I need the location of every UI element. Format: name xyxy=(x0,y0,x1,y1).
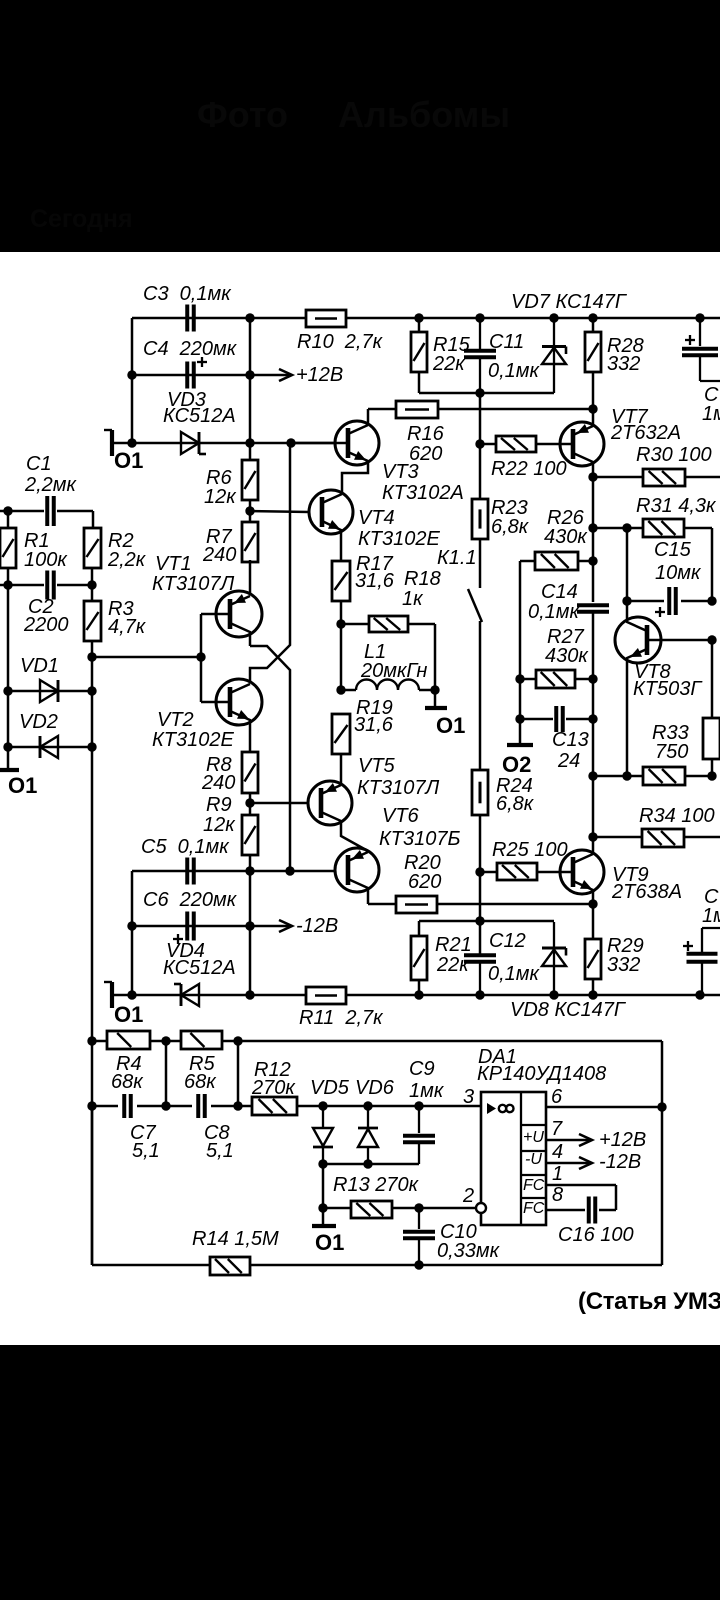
resistor R6 xyxy=(204,460,258,508)
node VT8 base xyxy=(707,635,716,644)
wire vert links xyxy=(166,1041,238,1106)
svg-text:22к: 22к xyxy=(432,353,466,375)
svg-text:О2: О2 xyxy=(502,752,531,777)
wire R13 row xyxy=(323,1207,476,1210)
label K1.1 xyxy=(437,547,477,569)
terminal O1 left xyxy=(0,770,37,798)
resistor R1 xyxy=(0,528,68,571)
terminal O1 top xyxy=(104,430,143,473)
svg-text:240: 240 xyxy=(201,772,235,794)
node c10 bot xyxy=(414,1260,423,1269)
svg-text:С14: С14 xyxy=(541,581,578,603)
node R30 left xyxy=(588,472,597,481)
node R13-l xyxy=(318,1203,327,1212)
svg-text:4,7к: 4,7к xyxy=(108,616,147,638)
resistor R12 xyxy=(251,1059,297,1115)
svg-text:К1.1: К1.1 xyxy=(437,547,477,569)
node base feed xyxy=(196,652,205,661)
wire ps bottom row xyxy=(92,1264,662,1267)
wire R18 row xyxy=(341,624,435,690)
resistor R33 xyxy=(643,722,689,785)
transistor VT5 xyxy=(308,755,439,851)
capacitor C5 xyxy=(141,836,230,885)
svg-text:VT2: VT2 xyxy=(157,709,194,731)
svg-text:КТ503Г: КТ503Г xyxy=(633,678,703,700)
svg-text:R16: R16 xyxy=(407,423,445,445)
node R31 left xyxy=(588,523,597,532)
pin2 circle xyxy=(476,1203,486,1213)
wire pin8 xyxy=(546,1209,616,1212)
zener VD8 xyxy=(542,922,566,995)
wire vd5-R13 col xyxy=(322,1164,325,1226)
node VT6b-1 xyxy=(245,866,254,875)
pin 8 xyxy=(552,1184,563,1206)
node R27-l xyxy=(515,674,524,683)
node R26 right xyxy=(588,556,597,565)
wire R8-R9 xyxy=(249,793,252,815)
resistor R20 xyxy=(396,852,441,913)
svg-text:2Т632А: 2Т632А xyxy=(610,422,681,444)
wire R20 row xyxy=(368,903,593,906)
svg-text:6,8к: 6,8к xyxy=(491,516,530,538)
resistor R18 xyxy=(369,568,441,632)
svg-text:31,6: 31,6 xyxy=(354,714,394,736)
label R13 xyxy=(333,1174,420,1196)
switch K1.1 xyxy=(468,539,482,770)
node c78-3 xyxy=(233,1101,242,1110)
wire R6-R7 xyxy=(249,500,252,522)
svg-text:22к: 22к xyxy=(436,954,470,976)
svg-text:VT4: VT4 xyxy=(358,507,395,529)
node input1 xyxy=(3,506,12,515)
resistor R13 xyxy=(351,1201,392,1218)
node R29 rail xyxy=(588,990,597,999)
inductor L1 xyxy=(341,680,435,691)
wire C15 row xyxy=(627,600,712,603)
svg-text:-12В: -12В xyxy=(296,915,338,937)
wire VT5 base row xyxy=(250,802,308,805)
svg-text:2,2к: 2,2к xyxy=(107,549,147,571)
node vd5 top xyxy=(318,1101,327,1110)
capacitor C14 xyxy=(528,581,609,623)
svg-text:332: 332 xyxy=(607,954,640,976)
svg-text:О1: О1 xyxy=(436,713,465,738)
diode VD6 xyxy=(358,1106,378,1164)
node VD7 rail xyxy=(549,313,558,322)
svg-text:68к: 68к xyxy=(184,1071,217,1093)
wire R34 row xyxy=(593,836,720,839)
resistor R31 xyxy=(636,495,717,537)
label DA1 xyxy=(477,1046,606,1085)
transistor VT8 xyxy=(615,601,712,776)
capacitor C15 xyxy=(654,539,702,617)
node R18 left xyxy=(336,619,345,628)
resistor R32 xyxy=(703,718,720,759)
svg-text:R25 100: R25 100 xyxy=(492,839,568,861)
wire O1 L1 stub xyxy=(434,690,437,708)
arrow pin7 +12V xyxy=(546,1129,646,1151)
node VD1-l xyxy=(3,686,12,695)
svg-text:C4 220мк: C4 220мк xyxy=(143,338,238,360)
transistor VT4 xyxy=(309,490,440,561)
node VD3-right xyxy=(245,438,254,447)
diode VD3 xyxy=(163,389,236,454)
svg-text:+12В: +12В xyxy=(296,364,343,386)
svg-text:КТ3102Е: КТ3102Е xyxy=(152,729,234,751)
wire mid right col xyxy=(592,679,595,837)
capacitor C11 xyxy=(464,318,541,393)
svg-text:7: 7 xyxy=(551,1118,563,1140)
svg-text:2200: 2200 xyxy=(23,614,69,636)
svg-text:12к: 12к xyxy=(204,486,237,508)
svg-text:0,1мк: 0,1мк xyxy=(528,601,581,623)
node C6-r xyxy=(245,921,254,930)
pin labels DA1 xyxy=(523,1129,545,1217)
node R28 rail xyxy=(588,313,597,322)
node input2-right xyxy=(87,580,96,589)
svg-text:+U: +U xyxy=(523,1129,544,1146)
capacitor C12 xyxy=(464,930,541,995)
node C4-right xyxy=(245,370,254,379)
svg-text:24: 24 xyxy=(557,750,580,772)
wire R15 stub xyxy=(418,318,421,393)
node VD8 rail xyxy=(549,990,558,999)
wire mid top row xyxy=(419,392,554,395)
capacitor C18 xyxy=(683,886,720,995)
node R34 left xyxy=(588,832,597,841)
capacitor C16 xyxy=(558,1197,634,1247)
zener VD7 xyxy=(542,318,566,393)
label VD8 xyxy=(510,999,627,1021)
transistor VT1 xyxy=(152,553,262,646)
wire R24 down xyxy=(479,815,482,956)
wire X-cross up xyxy=(250,443,290,683)
node C11 rail xyxy=(475,313,484,322)
node c78-1 xyxy=(87,1101,96,1110)
transistor VT9 xyxy=(560,837,682,904)
pin 2 xyxy=(462,1185,474,1207)
node VD1-r xyxy=(87,686,96,695)
svg-text:R13 270к: R13 270к xyxy=(333,1174,420,1196)
resistor R3 xyxy=(84,598,147,641)
svg-text:КС512А: КС512А xyxy=(163,957,236,979)
wire ps right side xyxy=(661,1041,664,1265)
svg-text:R9: R9 xyxy=(206,794,232,816)
wire VT6 base row xyxy=(132,870,335,873)
capacitor C3 xyxy=(143,283,232,332)
diode VD4 xyxy=(174,984,199,1006)
svg-text:5,1: 5,1 xyxy=(132,1140,160,1162)
pin 1 xyxy=(552,1163,563,1185)
svg-text:C3 0,1мк: C3 0,1мк xyxy=(143,283,232,305)
svg-text:2,2мк: 2,2мк xyxy=(24,474,78,496)
wire bottom -12V rail xyxy=(112,994,720,997)
wire mid left col xyxy=(91,641,94,1265)
node R25 left xyxy=(475,867,484,876)
node C6-l xyxy=(127,921,136,930)
wire VT3 collector xyxy=(368,409,396,425)
node R33 mid xyxy=(622,771,631,780)
svg-text:VD7 КС147Г: VD7 КС147Г xyxy=(511,291,628,313)
svg-text:750: 750 xyxy=(655,741,688,763)
pin 3 xyxy=(463,1086,474,1108)
svg-text:С12: С12 xyxy=(489,930,526,952)
wire C13 row xyxy=(520,718,593,721)
svg-text:VT3: VT3 xyxy=(382,461,419,483)
node C12 top xyxy=(475,916,484,925)
svg-text:VD6: VD6 xyxy=(355,1077,395,1099)
resistor R28 xyxy=(585,332,644,375)
node R27-r xyxy=(588,674,597,683)
node C15 col xyxy=(622,523,631,532)
capacitor C10 xyxy=(403,1208,501,1265)
resistor R8 xyxy=(201,752,258,794)
node vdb-1 xyxy=(318,1159,327,1168)
resistor R7 xyxy=(202,522,258,566)
svg-text:КТ3107Л: КТ3107Л xyxy=(357,777,439,799)
node c78-2 xyxy=(161,1101,170,1110)
resistor R23 xyxy=(472,497,530,539)
wire R25 row xyxy=(480,871,561,874)
node C12 rail xyxy=(475,990,484,999)
node R6R7 xyxy=(245,506,254,515)
wire left top column xyxy=(131,318,134,443)
capacitor C8 xyxy=(198,1094,234,1162)
svg-text:VD8 КС147Г: VD8 КС147Г xyxy=(510,999,627,1021)
svg-text:R22 100: R22 100 xyxy=(491,458,567,480)
wire R32 col xyxy=(711,640,714,776)
svg-text:430к: 430к xyxy=(544,526,588,548)
svg-text:О1: О1 xyxy=(114,1002,143,1027)
resistor R21 xyxy=(411,934,472,980)
svg-text:C6 220мк: C6 220мк xyxy=(143,889,238,911)
resistor R14 xyxy=(192,1228,279,1275)
capacitor C9 xyxy=(403,1058,445,1164)
transistor VT7 xyxy=(560,406,681,477)
svg-text:-12В: -12В xyxy=(599,1151,641,1173)
wire R4R5 row xyxy=(92,1040,662,1043)
svg-text:VD2: VD2 xyxy=(19,711,58,733)
svg-text:С16 100: С16 100 xyxy=(558,1224,634,1246)
wire R9 down xyxy=(249,855,252,995)
label L1 xyxy=(360,641,427,682)
svg-text:С13: С13 xyxy=(552,729,589,751)
resistor R34 xyxy=(639,805,715,847)
svg-text:R31 4,3к: R31 4,3к xyxy=(636,495,717,517)
arrow pin4 -12V xyxy=(546,1151,641,1173)
wire R19-VT5 xyxy=(340,754,343,785)
label R26 xyxy=(544,507,588,548)
label VD4 xyxy=(163,940,236,979)
terminal O1 ps xyxy=(312,1226,344,1255)
resistor R5 xyxy=(181,1031,222,1093)
node R22 left xyxy=(475,439,484,448)
svg-text:R11 2,7к: R11 2,7к xyxy=(299,1007,384,1029)
svg-text:С15: С15 xyxy=(654,539,692,561)
resistor R30 xyxy=(636,444,712,486)
terminal O2 xyxy=(502,745,533,777)
svg-text:620: 620 xyxy=(408,871,441,893)
wire left bot column xyxy=(131,871,134,995)
node R6 rail xyxy=(245,313,254,322)
svg-text:31,6: 31,6 xyxy=(355,570,395,592)
label R27 xyxy=(545,626,589,667)
node C4-left xyxy=(127,370,136,379)
svg-text:R21: R21 xyxy=(435,934,472,956)
wire top +12V rail xyxy=(132,317,720,320)
svg-text:0,1мк: 0,1мк xyxy=(488,963,541,985)
node VD2-l xyxy=(3,742,12,751)
capacitor C4 xyxy=(143,338,238,389)
capacitor C2 xyxy=(23,571,69,637)
wire pin1 xyxy=(546,1185,616,1210)
node VD2-r xyxy=(87,742,96,751)
node c9 top xyxy=(414,1101,423,1110)
node VT9 emitter xyxy=(588,899,597,908)
svg-text:240: 240 xyxy=(202,544,236,566)
node R33 right xyxy=(707,771,716,780)
wire R6 top xyxy=(249,318,252,460)
transistor VT3 xyxy=(291,421,464,504)
node VT6b-2 xyxy=(285,866,294,875)
svg-text:VD5: VD5 xyxy=(310,1077,350,1099)
node L1-r xyxy=(430,685,439,694)
opamp DA1 symbol xyxy=(487,1103,514,1114)
svg-text:VT1: VT1 xyxy=(155,553,192,575)
resistor R25 xyxy=(492,839,568,880)
pin 7 xyxy=(551,1118,563,1140)
wire R27 row xyxy=(520,678,593,681)
node vd6 top xyxy=(363,1101,372,1110)
wire C4 row xyxy=(132,374,250,377)
svg-text:О1: О1 xyxy=(114,448,143,473)
arrow +12V xyxy=(250,364,343,386)
wire R22 row xyxy=(480,443,561,446)
node C15-r xyxy=(707,596,716,605)
wire R3 col xyxy=(91,568,94,601)
svg-text:12к: 12к xyxy=(203,814,236,836)
wire C7C8 row xyxy=(92,1105,481,1108)
capacitor C6 xyxy=(143,889,238,944)
resistor R2 xyxy=(84,528,147,571)
wire C11-K1 col xyxy=(479,393,482,499)
node R21 rail xyxy=(414,990,423,999)
wire R1 col xyxy=(7,511,10,770)
node C11 bottom xyxy=(475,388,484,397)
wire R14 corner xyxy=(91,1106,94,1265)
wire pin6 xyxy=(546,1106,662,1109)
node R13-r xyxy=(414,1203,423,1212)
svg-text:VT5: VT5 xyxy=(358,755,396,777)
svg-text:270к: 270к xyxy=(251,1077,296,1099)
resistor R26 xyxy=(535,552,578,570)
tab Фото xyxy=(197,94,288,136)
svg-text:1мк: 1мк xyxy=(409,1080,445,1102)
wire C6 row xyxy=(132,925,250,928)
svg-text:FC: FC xyxy=(523,1200,545,1217)
svg-text:1: 1 xyxy=(552,1163,563,1185)
svg-text:КР140УД1408: КР140УД1408 xyxy=(477,1063,606,1085)
node R3 bottom xyxy=(87,652,96,661)
svg-text:КТ3102А: КТ3102А xyxy=(382,482,464,504)
svg-text:1к: 1к xyxy=(402,588,424,610)
resistor R11 xyxy=(299,987,384,1029)
resistor R19 xyxy=(332,697,394,754)
label Сегодня xyxy=(30,205,133,234)
node R16-VT7 xyxy=(588,404,597,413)
wire C15 col xyxy=(626,528,629,601)
svg-text:R10 2,7к: R10 2,7к xyxy=(297,331,384,353)
arrow -12V xyxy=(250,915,338,937)
node R15 rail xyxy=(414,313,423,322)
node C13-l xyxy=(515,714,524,723)
svg-text:R30 100: R30 100 xyxy=(636,444,712,466)
wire VD2 row xyxy=(8,746,92,749)
svg-text:О1: О1 xyxy=(315,1230,344,1255)
wire R28 stub xyxy=(592,318,595,409)
svg-text:6,8к: 6,8к xyxy=(496,793,535,815)
wire VD1 row xyxy=(8,690,92,693)
svg-text:332: 332 xyxy=(607,353,640,375)
wire C14 col xyxy=(592,528,595,679)
wire VT7-R31 xyxy=(592,477,595,528)
svg-text:C5 0,1мк: C5 0,1мк xyxy=(141,836,230,858)
node L1-l xyxy=(336,685,345,694)
svg-text:R14 1,5М: R14 1,5М xyxy=(192,1228,279,1250)
resistor R4 xyxy=(107,1031,150,1093)
svg-text:5,1: 5,1 xyxy=(206,1140,234,1162)
node C17 rail xyxy=(695,313,704,322)
capacitor C17 xyxy=(682,318,720,425)
capacitor C7 xyxy=(124,1094,160,1162)
wire R30 row xyxy=(593,476,720,479)
capacitor C1 xyxy=(24,453,78,526)
svg-text:2Т638А: 2Т638А xyxy=(611,881,682,903)
capacitor C13 xyxy=(552,706,589,772)
svg-text:3: 3 xyxy=(463,1086,474,1108)
svg-text:4: 4 xyxy=(552,1141,563,1163)
svg-text:8: 8 xyxy=(552,1184,563,1206)
node O1 top xyxy=(127,438,136,447)
svg-text:10мк: 10мк xyxy=(655,562,702,584)
svg-text:+12В: +12В xyxy=(599,1129,646,1151)
wire R16 right xyxy=(438,408,593,411)
svg-text:О1: О1 xyxy=(8,773,37,798)
node VT2-collector-net xyxy=(286,438,295,447)
svg-text:FC: FC xyxy=(523,1177,545,1194)
wire R31 row xyxy=(593,528,712,601)
wire R26 wires xyxy=(520,561,593,744)
wire R2 drop xyxy=(92,511,95,528)
wire R33 row xyxy=(593,775,712,778)
resistor R16 xyxy=(396,401,445,465)
svg-text:КТ3102Е: КТ3102Е xyxy=(358,528,440,550)
svg-text:68к: 68к xyxy=(111,1071,144,1093)
svg-text:C11: C11 xyxy=(489,331,524,353)
node C13-r xyxy=(588,714,597,723)
diode VD2 xyxy=(19,711,58,758)
svg-text:VD1: VD1 xyxy=(20,655,59,677)
pin 6 xyxy=(551,1086,563,1108)
resistor R27 xyxy=(536,670,575,688)
label VD5 VD6 xyxy=(310,1077,395,1099)
svg-text:КТ3107Б: КТ3107Б xyxy=(379,828,461,850)
node C15-l xyxy=(622,596,631,605)
svg-text:1м: 1м xyxy=(702,403,720,425)
node r45-3 xyxy=(233,1036,242,1045)
wire input row1 xyxy=(0,510,93,513)
opamp DA1 box xyxy=(481,1092,546,1225)
